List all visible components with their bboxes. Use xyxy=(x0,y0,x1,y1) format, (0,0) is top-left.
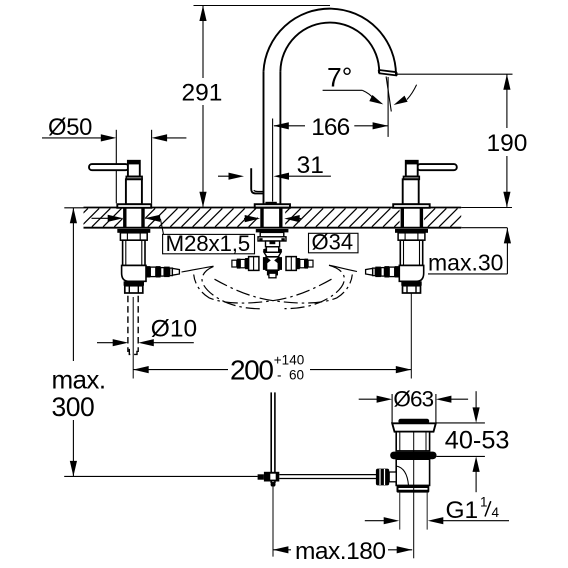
drain body xyxy=(396,459,429,485)
hose stub from right connector xyxy=(329,265,357,271)
angle arc right with arrowhead xyxy=(394,85,417,105)
hose crossing stroke rising xyxy=(194,275,332,304)
7 degree tilted axis line xyxy=(386,77,391,112)
extension line: deck bottom to max.30 dim xyxy=(461,227,507,229)
svg-text:Ø10: Ø10 xyxy=(151,315,197,342)
svg-text:max.180: max.180 xyxy=(295,538,385,565)
spout column right edge xyxy=(279,71,281,204)
svg-text:Ø34: Ø34 xyxy=(312,230,354,255)
spout column left edge xyxy=(263,71,265,204)
pull rod centre line xyxy=(132,297,134,379)
svg-text:- 60: - 60 xyxy=(277,368,304,383)
shank hex nut xyxy=(258,232,286,241)
bottom reference line xyxy=(64,475,257,477)
extension line right valve axis xyxy=(410,293,412,378)
extension line o-ring base xyxy=(436,455,485,457)
dimension 166 line xyxy=(273,122,388,129)
dimension 200 line xyxy=(133,366,411,373)
M28 arrows at spout shank xyxy=(244,215,301,222)
spout dark ring above flange xyxy=(265,202,276,205)
extension line: outlet level to 190 xyxy=(397,73,513,75)
dimension max.180 line xyxy=(273,546,412,553)
tee upper union xyxy=(263,241,282,252)
leader line from 7 degrees xyxy=(323,89,363,91)
svg-text:31: 31 xyxy=(297,152,324,179)
leader to M28 label xyxy=(160,219,163,235)
spout inner arc xyxy=(280,23,379,73)
drain plug disc xyxy=(398,419,429,424)
right valve lever bar xyxy=(417,164,457,170)
spout escutcheon flange xyxy=(255,204,290,208)
svg-text:166: 166 xyxy=(311,114,349,141)
svg-text:Ø63: Ø63 xyxy=(393,387,433,412)
drain knob xyxy=(376,469,396,486)
right valve collar xyxy=(404,176,420,179)
dimension diameter 63 arrows xyxy=(359,396,468,403)
left valve hose connector xyxy=(146,266,180,277)
left valve body below deck xyxy=(117,229,150,293)
extension line: top of spout reference xyxy=(194,5,331,7)
dimension 291 vertical line xyxy=(199,6,206,208)
drain rod centre line lower xyxy=(272,487,274,557)
extension line cap base xyxy=(436,422,485,424)
drain tailpipe xyxy=(400,492,428,529)
svg-text:291: 291 xyxy=(182,79,223,106)
extension line: outlet axis xyxy=(387,77,389,137)
dimension text G1 1/4 xyxy=(446,495,500,525)
svg-text:40-53: 40-53 xyxy=(445,427,510,455)
hose crossing stroke falling xyxy=(215,275,353,304)
svg-text:190: 190 xyxy=(487,130,528,157)
svg-text:7°: 7° xyxy=(327,62,352,92)
thin deck top line left extension xyxy=(64,207,83,209)
M28 arrows at left valve xyxy=(92,215,161,222)
spout outer arc xyxy=(264,9,397,75)
dimension max.300 line xyxy=(70,208,77,477)
drain centre line xyxy=(413,432,415,558)
svg-text:4: 4 xyxy=(492,505,500,520)
countertop top line xyxy=(84,207,462,209)
hose stub from left connector xyxy=(182,266,214,272)
dimension 190 vertical line xyxy=(503,74,510,207)
left valve stem xyxy=(126,179,142,204)
countertop bottom line xyxy=(84,227,462,229)
svg-text:300: 300 xyxy=(52,392,95,422)
max.30 text shelf line xyxy=(428,273,507,275)
dimension 31 line left part xyxy=(218,173,244,180)
spout shank locknut xyxy=(256,229,289,232)
spout base step bracket xyxy=(251,168,263,193)
svg-text:G1: G1 xyxy=(446,497,479,524)
pull rod dashed outline xyxy=(128,296,138,355)
dimension 40-53 arrows xyxy=(473,391,480,492)
left valve lever bar xyxy=(89,164,129,170)
svg-text:max.30: max.30 xyxy=(428,250,503,276)
svg-text:M28x1,5: M28x1,5 xyxy=(166,231,250,256)
rod clamp fitting xyxy=(258,472,280,482)
drain o-ring xyxy=(390,452,436,460)
svg-text:200: 200 xyxy=(230,354,273,385)
dimension 31 line right part xyxy=(274,173,331,180)
lever bar to drain xyxy=(279,475,377,479)
right valve thread through deck xyxy=(402,208,421,227)
label box M28x1,5 xyxy=(163,234,255,253)
drain neck xyxy=(396,432,429,451)
drain rod xyxy=(271,392,276,486)
right valve stem xyxy=(403,179,419,204)
right valve body below deck xyxy=(395,229,428,293)
tee bottom stub xyxy=(267,270,278,278)
drain cap rim xyxy=(392,423,436,431)
dimension diameter 10 xyxy=(97,339,194,346)
tee left arm xyxy=(232,257,267,271)
extension lines diameter 50 xyxy=(116,130,151,204)
dimension G1 1/4 arrows xyxy=(365,517,509,524)
angle arc left with arrowhead xyxy=(362,90,383,104)
dimension max.30 line xyxy=(504,228,511,274)
left valve escutcheon xyxy=(117,204,151,208)
tee right arm xyxy=(278,257,313,271)
extension line: deck top to 190 dim xyxy=(461,207,512,209)
left valve thread through deck xyxy=(125,208,143,227)
left valve handle post xyxy=(127,160,140,176)
drain seal band xyxy=(397,485,430,492)
svg-text:max.: max. xyxy=(52,365,106,395)
hose right loop xyxy=(285,265,345,308)
left valve collar xyxy=(126,176,142,179)
right valve escutcheon xyxy=(393,204,430,208)
svg-text:+140: +140 xyxy=(274,353,304,368)
right valve handle post xyxy=(405,160,418,176)
extension lines diameter 63 xyxy=(392,394,436,423)
tee taper piece xyxy=(264,252,281,256)
dimension diameter 50 arrows xyxy=(42,134,186,141)
hose left loop xyxy=(202,266,262,308)
spout shank thread through deck xyxy=(262,208,281,227)
spout outlet face (7 deg cut) xyxy=(378,70,397,76)
tee body centre xyxy=(266,257,279,270)
label box diameter 34 xyxy=(309,233,359,253)
svg-text:1: 1 xyxy=(480,495,488,510)
right valve hose connector xyxy=(366,266,400,277)
svg-text:Ø50: Ø50 xyxy=(48,114,92,141)
extension line: spout axis xyxy=(272,119,274,202)
